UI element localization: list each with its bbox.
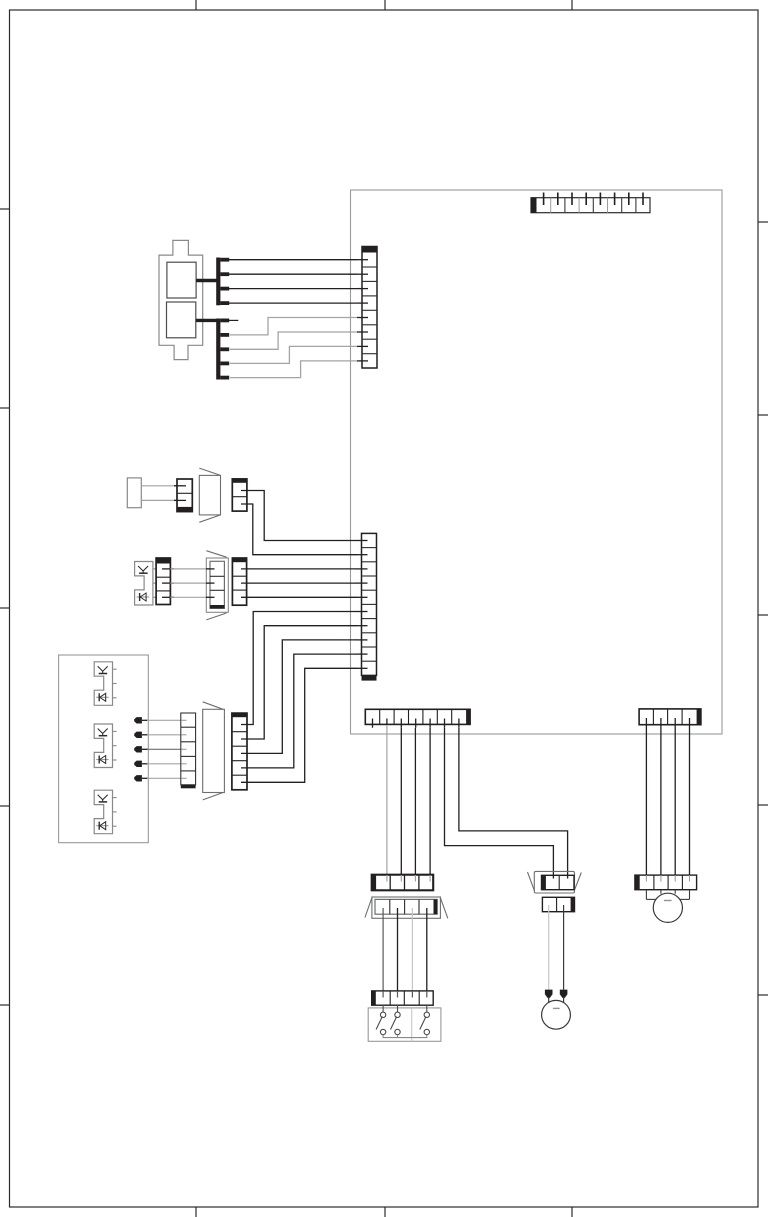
wire splice1 to P7 pin1 [147, 719, 182, 721]
lamp connector hood [528, 871, 582, 893]
wire P8 pin1 to CN3 pin6 [241, 612, 357, 725]
connector P7 5-way [181, 713, 196, 788]
wire P10 pin4 to switch connector [426, 908, 428, 991]
wire P10 pin2 to switch connector [397, 908, 399, 991]
wire comb2-4 to CN2 pin7 [230, 346, 357, 363]
connector P12 2-way [542, 897, 574, 911]
switch SW2 [391, 1005, 401, 1035]
sensor PH1 pin stubs [153, 569, 157, 597]
wire P10 pin1 to switch connector [382, 908, 384, 991]
wire P6 pin2 to CN3 pin4 [241, 582, 357, 584]
splice terminal 5 [134, 775, 148, 781]
connector P10 4-way in hood [365, 897, 448, 918]
wire CN5 pin1 to motor connector [645, 725, 647, 875]
wire splice2 to P7 pin2 [147, 734, 182, 736]
photo-interrupter sensor PH2 [94, 662, 116, 706]
wire P4 to P5 pin3 [170, 596, 210, 598]
wire CN4 pin2 to P9 [386, 725, 388, 875]
connector hood shell for P2 [199, 468, 220, 522]
wire P3 pin2 to CN3 pin2 [241, 504, 357, 555]
wire comb2-5 to CN2 pin8 [230, 361, 357, 378]
connector P13 4-way [635, 875, 697, 890]
connector P11 4-way [372, 991, 434, 1005]
lamp bullet terminal 2 [560, 990, 568, 1003]
wire P8 pin4 to CN3 pin9 [241, 654, 357, 768]
wire CN4 pin3 to P9 [400, 728, 402, 875]
board connector CN5 bottom edge 4-way [639, 709, 701, 725]
wire comb2-2 to CN2 pin5 [230, 318, 357, 335]
sensor unit box [59, 655, 149, 843]
splice terminal 2 [134, 732, 148, 738]
board connector CN2 left edge 8-way [357, 247, 377, 369]
splice terminal 3 [134, 746, 148, 752]
wire device to P2 pin2 [141, 499, 178, 501]
connector P4 3-way [156, 558, 174, 605]
wire comb1-1 to CN2 pin1 [229, 259, 357, 261]
wire P8 pin2 to CN3 pin7 [241, 626, 357, 739]
wire CN4 pin5 to P9 [429, 728, 431, 875]
connector hood shell for P8 [203, 702, 225, 800]
wire CN5 pin4 to motor connector [689, 725, 691, 875]
wire splice5 to P7 pin5 [147, 777, 182, 779]
wire comb1-3 to CN2 pin3 [229, 288, 357, 290]
wire device to P2 pin1 [141, 485, 178, 487]
wire CN5 pin2 to motor connector [660, 725, 662, 875]
wire P12 pin1 to lamp [548, 905, 550, 990]
photo-interrupter sensor PH3 [94, 724, 116, 768]
wire comb2-3 to CN2 pin6 [230, 332, 357, 349]
board connector CN4 bottom edge 7-way [365, 709, 470, 727]
CN1 pin ticks [544, 193, 643, 206]
wire P4 to P5 pin2 [170, 582, 210, 584]
wire P8 pin5 to CN3 pin10 [241, 668, 357, 782]
wire CN4 pin7 to lamp connector [459, 728, 568, 879]
wire P6 pin1 to CN3 pin3 [241, 568, 357, 570]
wire splice3 to P7 pin3 [147, 748, 182, 750]
switch unit box [368, 1008, 441, 1041]
connector P5 3-way in hood [206, 551, 228, 620]
connector P8 5-way [232, 713, 247, 790]
lamp L1 [542, 1000, 571, 1029]
wire CN4 pin6 to lamp connector [445, 728, 554, 879]
2-pole device body [127, 478, 141, 508]
board connector CN3 left edge 10-way [357, 533, 377, 680]
photo-interrupter sensor PH4 [94, 790, 116, 834]
wire CN5 pin3 to motor connector [674, 725, 676, 875]
stub wire comb2-1 [229, 319, 238, 321]
connector P2 2-way [174, 479, 192, 512]
switch SW3 [420, 1005, 430, 1035]
wire P12 pin2 to lamp [563, 905, 565, 990]
splice terminal 4 [134, 761, 148, 767]
connector P9 4-way [372, 875, 434, 891]
main control board outline [351, 190, 723, 734]
bus bar comb 2 [216, 319, 229, 380]
lamp bullet terminal 1 [545, 990, 553, 1003]
motor M1 body [646, 890, 689, 900]
wire P8 pin3 to CN3 pin8 [241, 640, 357, 754]
wire comb1-4 to CN2 pin4 [229, 302, 357, 304]
feed wire to bus comb 2 [196, 319, 217, 322]
wire P4 to P5 pin1 [170, 568, 210, 570]
splice terminal 1 [134, 717, 148, 723]
photo-interrupter sensor PH1 [135, 562, 153, 606]
wire splice4 to P7 pin4 [147, 763, 182, 765]
motor M1 [653, 893, 682, 922]
wire P3 pin1 to CN3 pin1 [241, 491, 357, 541]
connector P6 3-way [232, 558, 246, 605]
switch SW1 [376, 1005, 386, 1035]
feed wire to bus comb 1 [196, 279, 217, 282]
wire P10 pin3 to switch connector [411, 908, 413, 991]
component housing with two contact blocks [159, 240, 203, 359]
connector P3 2-way [232, 479, 247, 511]
wire CN4 pin4 to P9 [414, 728, 416, 875]
wire P6 pin3 to CN3 pin5 [241, 596, 357, 598]
bus bar comb 1 [216, 258, 229, 306]
switch common link wire [383, 1035, 427, 1038]
board connector CN1 top edge 8-way [531, 198, 650, 213]
wire comb1-2 to CN2 pin2 [229, 273, 357, 275]
